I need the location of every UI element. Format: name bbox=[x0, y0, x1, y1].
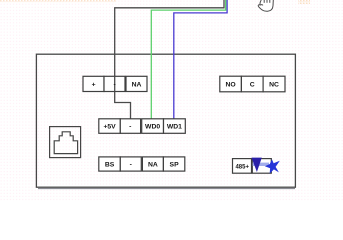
terminal block relay: C cell bbox=[241, 76, 263, 92]
terminal block mid: WD1 cell bbox=[164, 119, 186, 134]
drop marker blue smear bbox=[253, 163, 270, 166]
toolbar speckle top-right bbox=[298, 0, 310, 4]
svg-text:+: + bbox=[92, 82, 96, 89]
terminal block relay: NO cell bbox=[220, 76, 242, 92]
svg-text:-: - bbox=[113, 82, 115, 89]
terminal block top: - cell bbox=[104, 76, 125, 91]
svg-text:485+: 485+ bbox=[235, 164, 249, 170]
svg-text:NO: NO bbox=[225, 82, 235, 89]
svg-text:WD1: WD1 bbox=[167, 124, 182, 131]
terminal block mid: WD0 cell bbox=[142, 119, 164, 134]
RJ45 jack bbox=[50, 127, 81, 158]
svg-text:NA: NA bbox=[148, 162, 158, 169]
terminal block bottom: NA cell bbox=[142, 157, 163, 171]
svg-text:-: - bbox=[129, 124, 131, 131]
svg-text:-: - bbox=[130, 162, 132, 169]
svg-text:+5V: +5V bbox=[103, 124, 116, 131]
terminal block mid: +5V cell bbox=[99, 119, 121, 134]
terminal block bottom: - cell bbox=[120, 157, 141, 171]
toolbar speckle top-left bbox=[0, 0, 116, 2]
terminal block top: NA cell bbox=[126, 76, 147, 91]
terminal block mid: - cell bbox=[120, 119, 140, 134]
wire green from WD0 bbox=[151, 0, 225, 119]
terminal block 485: second cell bbox=[252, 159, 271, 174]
terminal block bottom: SP cell bbox=[163, 157, 184, 171]
svg-text:NA: NA bbox=[132, 82, 142, 89]
wire blue from WD1 bbox=[174, 0, 227, 119]
drop marker dark triangle bbox=[252, 158, 262, 172]
device outline bbox=[36, 54, 295, 188]
svg-text:SP: SP bbox=[170, 162, 180, 169]
svg-text:BS: BS bbox=[105, 162, 115, 169]
svg-text:WD0: WD0 bbox=[145, 124, 160, 131]
terminal block bottom: BS cell bbox=[99, 157, 121, 171]
terminal block 485+: label cell bbox=[233, 159, 252, 174]
cursor arrow blue bbox=[265, 159, 280, 173]
terminal block top: + cell bbox=[83, 76, 104, 91]
svg-text:NC: NC bbox=[269, 82, 279, 89]
svg-text:C: C bbox=[250, 82, 255, 89]
hand cursor bbox=[258, 0, 273, 11]
wire black crossing - cell bbox=[114, 76, 116, 91]
wire black from - terminal bbox=[115, 0, 224, 119]
terminal block relay: NC cell bbox=[263, 76, 285, 92]
